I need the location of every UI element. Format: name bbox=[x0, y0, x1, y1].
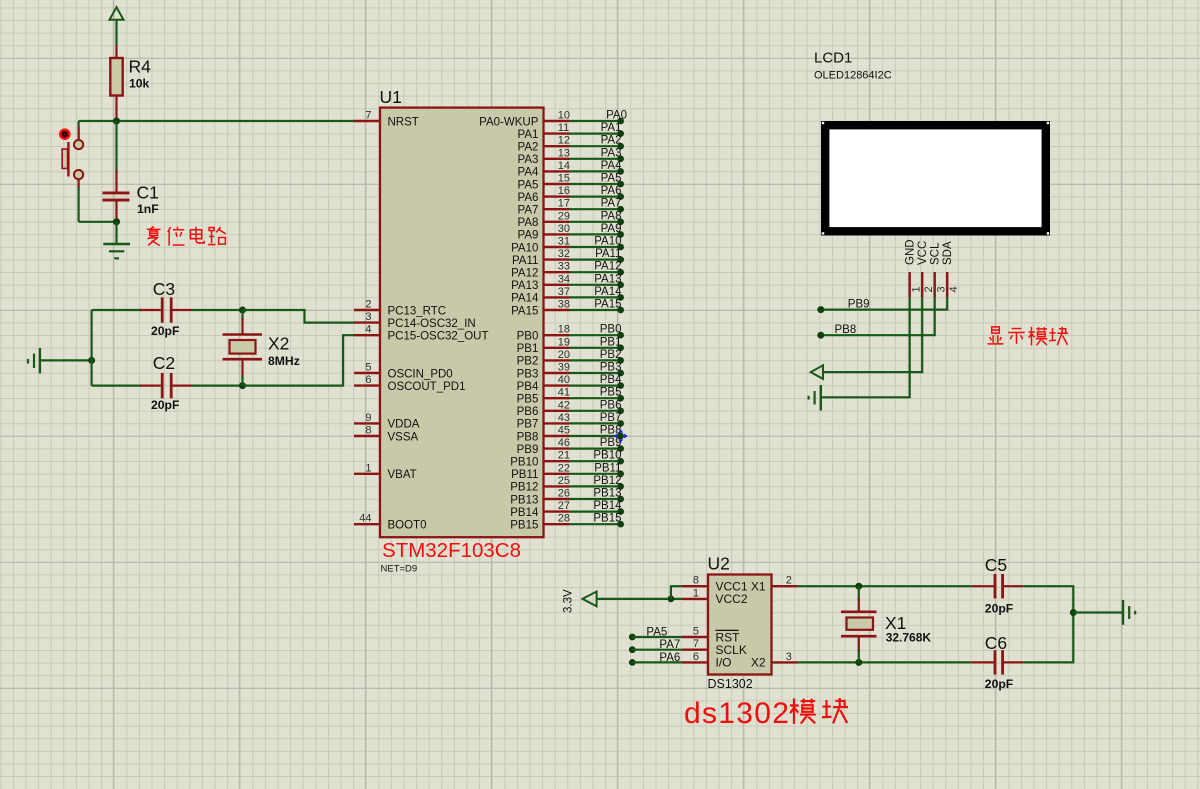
pin 7 (SCLK) of U2 bbox=[682, 638, 747, 657]
wire net PA13 bbox=[570, 284, 621, 286]
pin 13 (PA3) bbox=[518, 147, 571, 166]
svg-text:VCC2: VCC2 bbox=[716, 592, 748, 606]
value 20pF (C3) bbox=[151, 324, 179, 338]
svg-text:X1: X1 bbox=[751, 580, 766, 594]
svg-text:28: 28 bbox=[558, 513, 570, 525]
node PB6 bbox=[617, 408, 624, 415]
svg-text:14: 14 bbox=[558, 160, 570, 172]
junction node X2 bottom bbox=[239, 382, 246, 389]
svg-text:31: 31 bbox=[558, 236, 570, 248]
svg-text:PA0-WKUP: PA0-WKUP bbox=[479, 116, 539, 128]
wire power to R4 bbox=[115, 20, 117, 45]
value 8MHz bbox=[268, 354, 300, 368]
net label PA0 bbox=[606, 110, 627, 122]
svg-text:1: 1 bbox=[911, 286, 923, 292]
wire net PA11 bbox=[570, 259, 621, 261]
pin 17 (PA7) bbox=[518, 198, 571, 217]
wire ground to node bbox=[40, 359, 92, 361]
label R4 bbox=[129, 57, 152, 77]
net label PA6 bbox=[601, 185, 622, 197]
wire net PB4 bbox=[570, 385, 621, 387]
svg-text:3: 3 bbox=[786, 651, 792, 663]
wire X1 top rail bbox=[798, 585, 972, 587]
net label PB4 bbox=[600, 374, 622, 386]
capacitor C5 bbox=[972, 574, 1023, 598]
pin 11 (PA1) bbox=[518, 122, 570, 141]
svg-text:PA5: PA5 bbox=[646, 626, 667, 638]
svg-text:C3: C3 bbox=[153, 279, 175, 299]
pin 26 (PB13) bbox=[510, 488, 570, 507]
capacitor C3 bbox=[92, 297, 192, 322]
junction node C1/button/ground bbox=[113, 218, 120, 225]
svg-text:PA12: PA12 bbox=[511, 268, 538, 280]
IC U1 STM32F103C8 body bbox=[380, 108, 544, 538]
net label PB6 bbox=[600, 399, 622, 411]
svg-text:PB9: PB9 bbox=[600, 437, 622, 449]
pin 2 (VCC) of LCD1 bbox=[917, 241, 935, 297]
svg-text:43: 43 bbox=[558, 412, 570, 424]
net label PA1 bbox=[601, 122, 622, 134]
svg-text:PA6: PA6 bbox=[601, 185, 622, 197]
svg-text:C1: C1 bbox=[137, 183, 159, 203]
net label PB1 bbox=[600, 336, 622, 348]
pin 14 (PA4) bbox=[518, 160, 571, 179]
svg-text:10k: 10k bbox=[129, 77, 150, 91]
wire net PA5 bbox=[570, 183, 621, 185]
pin 4 (SDA) of LCD1 bbox=[942, 241, 960, 297]
pin 33 (PA12) bbox=[511, 261, 570, 280]
svg-text:15: 15 bbox=[558, 173, 570, 185]
svg-text:PA8: PA8 bbox=[601, 210, 622, 222]
svg-text:PB0: PB0 bbox=[517, 331, 539, 343]
svg-text:X2: X2 bbox=[751, 656, 766, 670]
svg-text:PB11: PB11 bbox=[594, 462, 621, 474]
pin 8 (VCC1) of U2 bbox=[682, 575, 748, 594]
wire left rail bbox=[90, 310, 92, 386]
svg-text:PB14: PB14 bbox=[593, 500, 622, 512]
svg-text:PA13: PA13 bbox=[511, 280, 538, 292]
svg-text:U2: U2 bbox=[708, 554, 730, 574]
node PB11 bbox=[617, 471, 624, 478]
crystal X2 bbox=[223, 310, 263, 386]
svg-text:4: 4 bbox=[948, 286, 960, 292]
svg-text:PB8: PB8 bbox=[835, 324, 857, 336]
wire net PB15 bbox=[570, 523, 621, 525]
net label PB8 bbox=[835, 324, 857, 336]
svg-text:5: 5 bbox=[365, 362, 371, 374]
svg-text:PA5: PA5 bbox=[518, 179, 539, 191]
svg-text:37: 37 bbox=[558, 286, 570, 298]
wire net PA4 bbox=[570, 170, 621, 172]
wire net PB1 bbox=[570, 347, 621, 349]
svg-text:27: 27 bbox=[558, 500, 570, 512]
svg-text:PB12: PB12 bbox=[510, 482, 538, 494]
capacitor C6 bbox=[972, 650, 1023, 674]
net label PB11 bbox=[594, 462, 621, 474]
node PB1 bbox=[617, 345, 624, 352]
node PA13 bbox=[617, 282, 624, 289]
pin 5 (OSCIN_PD0) bbox=[354, 362, 453, 381]
svg-text:33: 33 bbox=[558, 261, 570, 273]
svg-text:PA3: PA3 bbox=[518, 154, 539, 166]
wire net PB11 bbox=[570, 473, 621, 475]
wire C6 to right rail bbox=[1023, 613, 1073, 663]
node PB10 bbox=[617, 458, 624, 465]
wire net PB0 bbox=[570, 334, 621, 336]
net label PA3 bbox=[601, 147, 622, 159]
svg-text:PA13: PA13 bbox=[594, 273, 621, 285]
svg-text:PB2: PB2 bbox=[600, 349, 622, 361]
junction node X2 top bbox=[239, 307, 246, 314]
wire crystal node to PC15 elbow bbox=[243, 335, 355, 385]
wire C3 to crystal node bbox=[192, 309, 243, 311]
pin 2 (X1) of U2 bbox=[751, 575, 798, 594]
svg-text:DS1302: DS1302 bbox=[708, 677, 753, 691]
value 1nF bbox=[137, 202, 159, 216]
net label PB5 bbox=[600, 387, 622, 399]
pin 2 (PC13_RTC) bbox=[354, 299, 446, 318]
label X1 bbox=[885, 613, 906, 633]
label DS1302 bbox=[708, 677, 753, 691]
svg-text:21: 21 bbox=[558, 450, 570, 462]
label C1 bbox=[137, 183, 159, 203]
node PB15 bbox=[617, 521, 624, 528]
pin 9 (VDDA) bbox=[354, 412, 420, 431]
pin 12 (PA2) bbox=[518, 135, 571, 154]
svg-text:LCD1: LCD1 bbox=[814, 50, 852, 67]
svg-text:C5: C5 bbox=[985, 555, 1007, 575]
wire net PB5 bbox=[570, 397, 621, 399]
crystal X1 bbox=[841, 586, 877, 662]
svg-text:PA14: PA14 bbox=[594, 286, 622, 298]
net label PA5 bbox=[646, 626, 667, 638]
IC U2 DS1302 body bbox=[708, 575, 772, 675]
svg-text:2: 2 bbox=[786, 575, 792, 587]
junction node R4/C1/NRST bbox=[113, 117, 120, 124]
pin 43 (PB7) bbox=[517, 412, 570, 431]
label C5 bbox=[985, 555, 1007, 575]
net label PB3 bbox=[600, 362, 622, 374]
wire net PA10 bbox=[570, 246, 621, 248]
pin 25 (PB12) bbox=[510, 475, 570, 494]
node PA15 bbox=[617, 307, 624, 314]
wire net PA9 bbox=[570, 233, 621, 235]
svg-text:13: 13 bbox=[558, 147, 570, 159]
pin 31 (PA10) bbox=[511, 236, 570, 255]
svg-text:PA1: PA1 bbox=[601, 122, 622, 134]
svg-text:VCC: VCC bbox=[917, 241, 929, 265]
node PB12 bbox=[617, 483, 624, 490]
svg-text:PA0: PA0 bbox=[606, 110, 627, 122]
svg-text:STM32F103C8: STM32F103C8 bbox=[382, 539, 521, 562]
node PA1 bbox=[617, 130, 624, 137]
ground symbol (crystal) bbox=[28, 348, 40, 374]
net label PB15 bbox=[593, 513, 621, 525]
svg-text:41: 41 bbox=[558, 387, 570, 399]
power symbol (LCD VCC) bbox=[811, 365, 823, 379]
wire net PA3 bbox=[570, 158, 621, 160]
wire net PB3 bbox=[570, 372, 621, 374]
node PB13 bbox=[617, 496, 624, 503]
pin 39 (PB3) bbox=[517, 362, 570, 381]
node PA6 bbox=[629, 659, 636, 666]
pin 45 (PB8) bbox=[517, 425, 570, 444]
svg-text:PA6: PA6 bbox=[518, 192, 539, 204]
svg-text:PA4: PA4 bbox=[601, 160, 622, 172]
wire to PC14-OSC32_IN (jog) bbox=[243, 310, 355, 323]
net label PA7 bbox=[601, 198, 622, 210]
value 32.768K bbox=[886, 631, 932, 645]
svg-text:PB12: PB12 bbox=[593, 475, 621, 487]
pin 46 (PB9) bbox=[517, 437, 570, 456]
net label PA5 bbox=[601, 173, 622, 185]
svg-text:20pF: 20pF bbox=[985, 602, 1013, 616]
svg-text:PB3: PB3 bbox=[600, 362, 622, 374]
svg-text:PB4: PB4 bbox=[517, 381, 539, 393]
svg-text:7: 7 bbox=[693, 638, 699, 650]
net label PA15 bbox=[594, 299, 621, 311]
power symbol VCC (top) bbox=[110, 7, 124, 20]
svg-text:PC13_RTC: PC13_RTC bbox=[388, 305, 447, 317]
svg-text:11: 11 bbox=[558, 122, 569, 134]
node PA9 bbox=[617, 231, 624, 238]
svg-text:3: 3 bbox=[365, 311, 371, 323]
svg-text:40: 40 bbox=[558, 374, 570, 386]
wire net PA1 bbox=[570, 133, 621, 135]
pin 4 (PC15-OSC32_OUT) bbox=[354, 324, 488, 343]
wire C2 to crystal node bbox=[192, 385, 243, 387]
capacitor C2 bbox=[92, 373, 192, 398]
svg-text:39: 39 bbox=[558, 362, 570, 374]
svg-text:PA10: PA10 bbox=[511, 242, 538, 254]
wire net PA15 bbox=[570, 309, 621, 311]
wire to ground bbox=[115, 222, 117, 244]
node PB9 (LCD) bbox=[817, 306, 824, 313]
svg-text:18: 18 bbox=[558, 324, 570, 336]
wire net PB6 bbox=[570, 410, 621, 412]
svg-text:20pF: 20pF bbox=[151, 324, 179, 338]
pin 44 (BOOT0) bbox=[354, 513, 426, 532]
svg-text:PA9: PA9 bbox=[518, 230, 539, 242]
pin 40 (PB4) bbox=[517, 374, 570, 393]
svg-text:PB13: PB13 bbox=[593, 488, 621, 500]
wire PA7 bbox=[632, 649, 682, 651]
svg-text:VDDA: VDDA bbox=[388, 419, 420, 431]
wire net PA7 bbox=[570, 208, 621, 210]
pin 8 (VSSA) bbox=[354, 425, 419, 444]
svg-text:30: 30 bbox=[558, 223, 570, 235]
net label PA6 bbox=[659, 652, 680, 664]
label X2 bbox=[268, 334, 289, 354]
svg-text:32: 32 bbox=[558, 248, 570, 260]
svg-text:PB0: PB0 bbox=[600, 324, 622, 336]
pin 1 (VBAT) bbox=[354, 462, 417, 481]
net label PB14 bbox=[593, 500, 622, 512]
svg-text:NET=D9: NET=D9 bbox=[381, 564, 418, 575]
svg-text:GND: GND bbox=[905, 239, 917, 265]
svg-text:3.3V: 3.3V bbox=[563, 589, 575, 613]
junction node ground/left rail bbox=[88, 357, 95, 364]
svg-text:PB1: PB1 bbox=[517, 343, 539, 355]
svg-text:25: 25 bbox=[558, 475, 570, 487]
svg-text:PA1: PA1 bbox=[518, 129, 539, 141]
label C3 bbox=[153, 279, 175, 299]
label U2 bbox=[708, 554, 730, 574]
svg-text:PB6: PB6 bbox=[600, 399, 622, 411]
svg-text:PA5: PA5 bbox=[601, 173, 622, 185]
node PB0 bbox=[617, 332, 624, 339]
node PB8 bbox=[617, 433, 624, 440]
svg-text:2: 2 bbox=[923, 286, 935, 292]
svg-text:26: 26 bbox=[558, 488, 570, 500]
net label PB12 bbox=[593, 475, 621, 487]
wire net PB2 bbox=[570, 359, 621, 361]
svg-text:9: 9 bbox=[365, 412, 371, 424]
svg-text:PB6: PB6 bbox=[517, 406, 539, 418]
svg-text:1: 1 bbox=[365, 462, 371, 474]
wire net PB8 bbox=[570, 435, 621, 437]
net label PB7 bbox=[600, 412, 622, 424]
node PA5 bbox=[617, 181, 624, 188]
wire X1 bottom rail bbox=[798, 661, 972, 663]
svg-text:PA3: PA3 bbox=[601, 147, 622, 159]
pin 27 (PB14) bbox=[510, 500, 570, 519]
pin 38 (PA15) bbox=[511, 299, 570, 318]
node PA0 bbox=[617, 118, 624, 125]
pin 3 (SCL) of LCD1 bbox=[930, 242, 948, 297]
pin 32 (PA11) bbox=[512, 248, 570, 267]
node PA11 bbox=[617, 256, 624, 263]
svg-text:PB7: PB7 bbox=[600, 412, 622, 424]
value 10k bbox=[129, 77, 150, 91]
svg-text:PB5: PB5 bbox=[517, 394, 539, 406]
node PA5 bbox=[629, 634, 636, 641]
svg-text:PA10: PA10 bbox=[594, 236, 621, 248]
svg-text:3: 3 bbox=[936, 286, 948, 292]
svg-text:PB3: PB3 bbox=[517, 368, 539, 380]
svg-text:8MHz: 8MHz bbox=[268, 354, 300, 368]
wire net PA12 bbox=[570, 271, 621, 273]
svg-text:20pF: 20pF bbox=[985, 677, 1013, 691]
wire net PB9 bbox=[570, 448, 621, 450]
svg-text:38: 38 bbox=[558, 299, 570, 311]
svg-text:PA8: PA8 bbox=[518, 217, 539, 229]
svg-text:PA2: PA2 bbox=[601, 135, 622, 147]
svg-text:42: 42 bbox=[558, 399, 570, 411]
node PA14 bbox=[617, 294, 624, 301]
label C6 bbox=[985, 633, 1007, 653]
svg-text:PA7: PA7 bbox=[601, 198, 622, 210]
svg-text:1: 1 bbox=[693, 587, 699, 599]
net label PA4 bbox=[601, 160, 622, 172]
label LCD1 bbox=[814, 50, 852, 67]
node PB3 bbox=[617, 370, 624, 377]
wire GND to ground bbox=[821, 297, 910, 397]
value 20pF (C5) bbox=[985, 602, 1013, 616]
net label PA12 bbox=[594, 261, 621, 273]
wire to ground (right) bbox=[1073, 611, 1123, 613]
net label PA7 bbox=[659, 639, 680, 651]
svg-text:1nF: 1nF bbox=[137, 202, 159, 216]
resistor R4 bbox=[110, 45, 122, 121]
net label PA2 bbox=[601, 135, 622, 147]
svg-text:PB9: PB9 bbox=[848, 298, 870, 310]
wire PA5 bbox=[632, 636, 682, 638]
node PA12 bbox=[617, 269, 624, 276]
svg-text:PA12: PA12 bbox=[594, 261, 621, 273]
ground symbol (LCD) bbox=[809, 385, 821, 411]
svg-text:X2: X2 bbox=[268, 334, 289, 354]
svg-text:PB5: PB5 bbox=[600, 387, 622, 399]
svg-text:19: 19 bbox=[558, 336, 570, 348]
value 20pF (C6) bbox=[985, 677, 1013, 691]
svg-text:NRST: NRST bbox=[388, 116, 419, 128]
svg-text:VBAT: VBAT bbox=[388, 469, 417, 481]
wire net PB12 bbox=[570, 485, 621, 487]
label 3.3V bbox=[563, 589, 575, 613]
power symbol 3.3V bbox=[583, 592, 597, 607]
pin 7 (NRST) bbox=[354, 110, 419, 129]
wire net PA8 bbox=[570, 221, 621, 223]
svg-text:ds1302: ds1302 bbox=[684, 697, 790, 730]
text 显示模块 bbox=[988, 327, 1069, 346]
svg-text:PA4: PA4 bbox=[518, 167, 539, 179]
svg-text:29: 29 bbox=[558, 210, 570, 222]
wire net PB7 bbox=[570, 422, 621, 424]
svg-text:16: 16 bbox=[558, 185, 570, 197]
svg-text:10: 10 bbox=[558, 110, 570, 122]
svg-text:PA15: PA15 bbox=[511, 305, 538, 317]
label OLED12864I2C bbox=[814, 70, 892, 82]
wire PA6 bbox=[632, 661, 682, 663]
wire net PB13 bbox=[570, 498, 621, 500]
label C2 bbox=[153, 353, 175, 373]
pin 28 (PB15) bbox=[510, 513, 570, 532]
svg-text:46: 46 bbox=[558, 437, 570, 449]
junction node right rail bbox=[1070, 609, 1077, 616]
net label PB2 bbox=[600, 349, 622, 361]
svg-text:PB14: PB14 bbox=[510, 507, 539, 519]
svg-text:PB15: PB15 bbox=[593, 513, 621, 525]
svg-text:PB10: PB10 bbox=[593, 450, 621, 462]
wire VCC to power bbox=[823, 297, 922, 372]
svg-text:PB15: PB15 bbox=[510, 520, 538, 532]
label NET=D9 bbox=[381, 564, 418, 575]
capacitor C1 bbox=[103, 121, 130, 222]
svg-text:PA11: PA11 bbox=[595, 248, 621, 260]
svg-text:17: 17 bbox=[558, 198, 570, 210]
svg-text:PA7: PA7 bbox=[659, 639, 680, 651]
wire net PA14 bbox=[570, 296, 621, 298]
value 20pF (C2) bbox=[151, 398, 179, 412]
node PB7 bbox=[617, 420, 624, 427]
net label PA13 bbox=[594, 273, 621, 285]
node PA4 bbox=[617, 168, 624, 175]
node PB14 bbox=[617, 508, 624, 515]
svg-text:PB10: PB10 bbox=[510, 457, 538, 469]
pin 42 (PB6) bbox=[517, 399, 570, 418]
svg-text:SCL: SCL bbox=[930, 242, 942, 265]
net label PB0 bbox=[600, 324, 622, 336]
svg-text:PC14-OSC32_IN: PC14-OSC32_IN bbox=[388, 318, 476, 330]
net label PA14 bbox=[594, 286, 622, 298]
net label PB8 bbox=[600, 425, 622, 437]
svg-text:34: 34 bbox=[558, 273, 570, 285]
net label PA9 bbox=[601, 223, 622, 235]
text 复位电路 bbox=[147, 227, 226, 246]
node PB5 bbox=[617, 395, 624, 402]
wire net PB10 bbox=[570, 460, 621, 462]
